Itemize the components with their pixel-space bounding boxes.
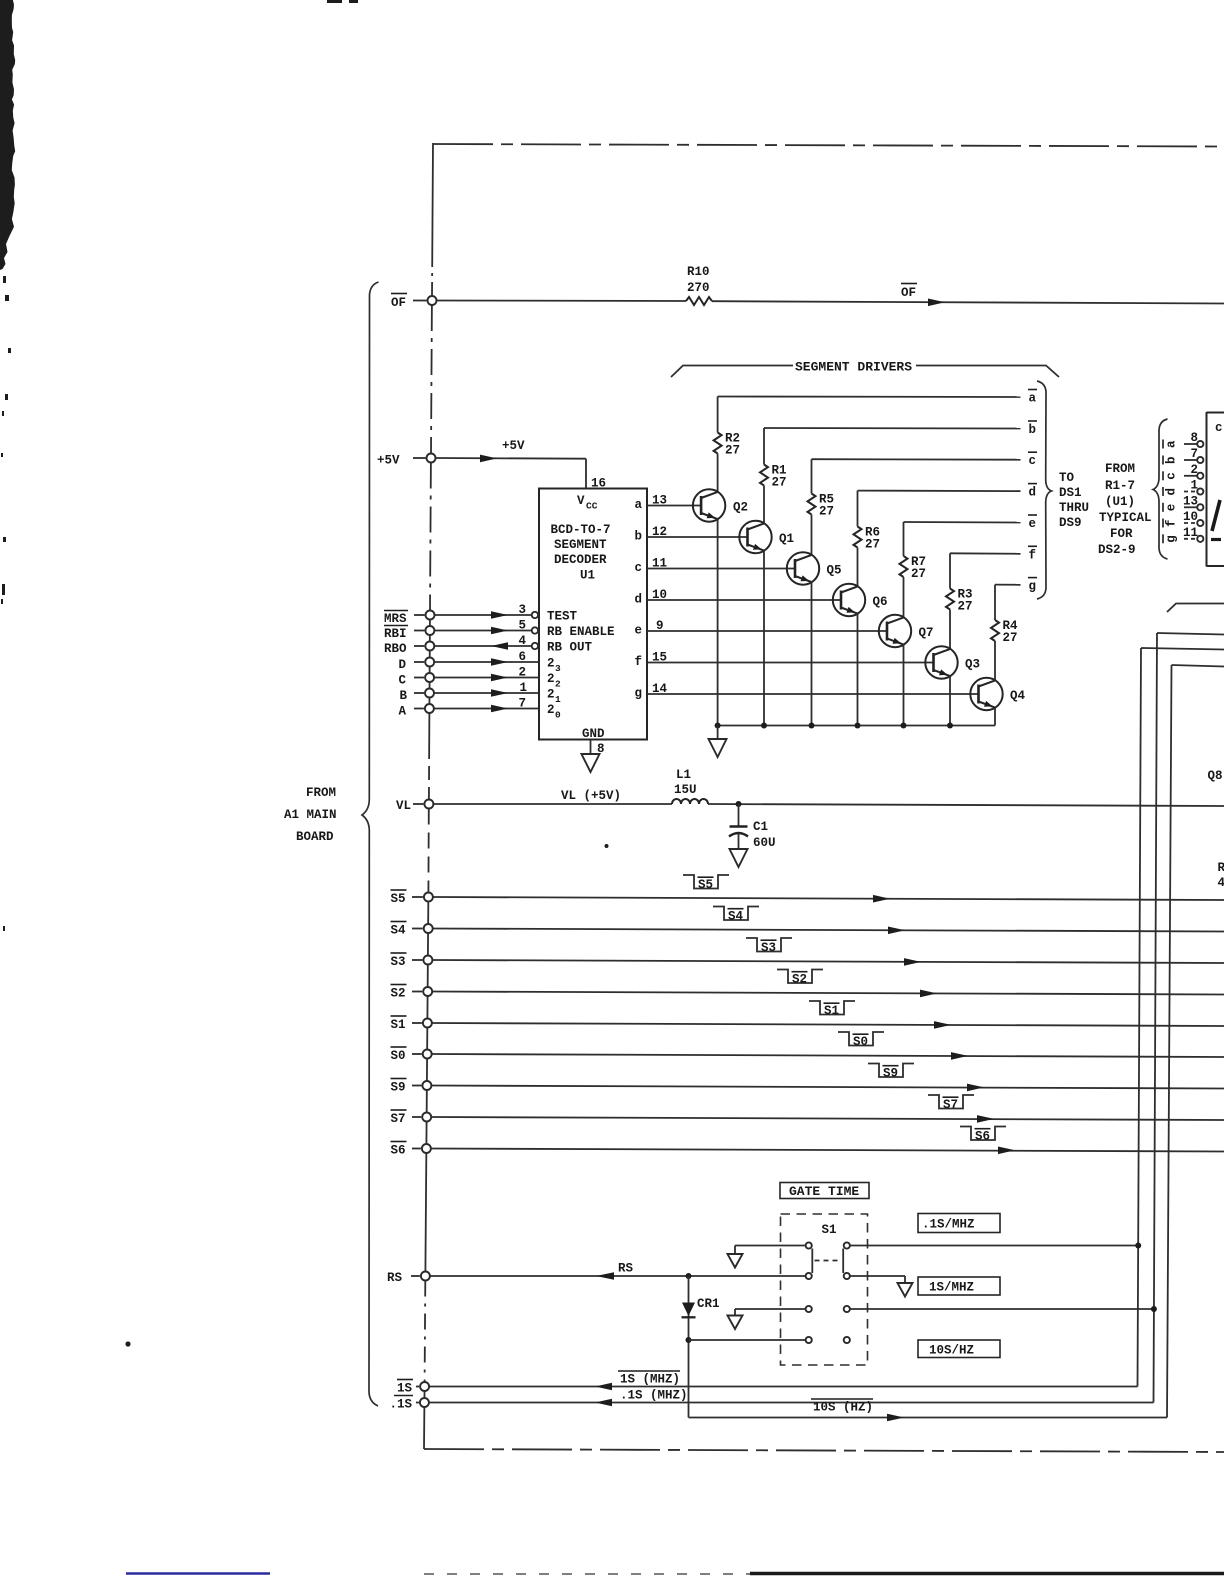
svg-text:Q5: Q5 <box>827 564 842 578</box>
junction dot row1/riser1 <box>1135 1243 1141 1249</box>
wire: .1S (MHZ) line <box>429 1402 1154 1404</box>
svg-text:c: c <box>1165 472 1179 480</box>
svg-text:a: a <box>1165 440 1179 448</box>
svg-text:11: 11 <box>1183 526 1198 540</box>
svg-text:C1: C1 <box>753 820 768 834</box>
svg-text:.1S (MHZ): .1S (MHZ) <box>620 1389 688 1403</box>
resistor R10 <box>686 297 712 305</box>
wire: segment d-bar line <box>858 490 1021 493</box>
resistor R4 27 <box>991 620 999 641</box>
wire: Q7 emitter down <box>903 645 905 726</box>
svg-text:6: 6 <box>518 650 526 664</box>
svg-text:4: 4 <box>518 634 526 648</box>
node 1S <box>397 1380 413 1396</box>
svg-text:1: 1 <box>1190 479 1198 493</box>
svg-text:e: e <box>1029 517 1037 531</box>
svg-text:2: 2 <box>547 657 555 671</box>
svg-text:1S/MHZ: 1S/MHZ <box>929 1281 974 1295</box>
svg-text:0: 0 <box>555 710 561 721</box>
pulse symbol S9 <box>868 1064 914 1081</box>
node S1 <box>391 1016 407 1032</box>
svg-text:OF: OF <box>901 286 916 300</box>
svg-text:S4: S4 <box>728 910 744 924</box>
pulse symbol S7 <box>928 1095 974 1112</box>
label Vcc <box>577 494 598 512</box>
label box 10S/HZ <box>918 1340 1000 1358</box>
svg-text:27: 27 <box>772 476 787 490</box>
DS1 pin 2 / c-bar <box>1163 463 1203 481</box>
DS1 pin 11 / g-bar <box>1163 526 1203 544</box>
svg-text:g: g <box>1165 535 1179 543</box>
transistor Q2 <box>693 489 748 521</box>
svg-text:1S (MHZ): 1S (MHZ) <box>620 1373 680 1387</box>
wire: .1S(MHZ) vertical riser <box>1154 633 1224 1403</box>
resistor R7 27 <box>900 556 908 577</box>
transistor Q1 <box>739 521 794 553</box>
pulse symbol S4 <box>713 907 759 924</box>
U1 output pin c 11 / wire to Q5 base <box>647 568 795 570</box>
svg-text:(U1): (U1) <box>1105 495 1135 509</box>
svg-text:S0: S0 <box>391 1049 406 1063</box>
svg-text:D: D <box>399 658 407 672</box>
svg-text:g: g <box>635 687 643 701</box>
ground (S1 row1) <box>728 1254 743 1268</box>
svg-text:+5V: +5V <box>502 439 525 453</box>
pulse symbol S6 <box>960 1127 1006 1144</box>
wire: VL line <box>433 804 1224 806</box>
switch S1 contact circles <box>806 1242 850 1343</box>
svg-text:A1 MAIN: A1 MAIN <box>284 808 337 822</box>
svg-text:Q4: Q4 <box>1010 689 1026 703</box>
svg-text:S0: S0 <box>853 1035 868 1049</box>
svg-text:27: 27 <box>865 538 880 552</box>
svg-text:DS2-9: DS2-9 <box>1098 543 1136 557</box>
svg-text:GATE TIME: GATE TIME <box>789 1184 859 1199</box>
transistor Q7 <box>879 615 934 647</box>
wire: Q3 emitter down <box>949 676 951 725</box>
svg-text:Q1: Q1 <box>779 532 794 546</box>
svg-text:27: 27 <box>725 444 740 458</box>
wire: CR1 vertical to 10S corner <box>688 1276 690 1418</box>
svg-text:S4: S4 <box>391 924 407 938</box>
svg-text:1: 1 <box>519 681 527 695</box>
ground (S1 row2) <box>898 1283 913 1297</box>
svg-text:FROM: FROM <box>1105 462 1135 476</box>
svg-text:11: 11 <box>652 557 667 571</box>
label TO DS1 THRU DS9 <box>1059 471 1089 530</box>
wire S5 line <box>433 897 1224 900</box>
svg-text:TEST: TEST <box>547 610 578 624</box>
capacitor C1 60U <box>729 804 776 850</box>
IC U1 BCD-to-7 segment decoder <box>539 489 647 740</box>
switch S1 row 4 wire <box>689 1339 806 1341</box>
svg-text:Q7: Q7 <box>919 626 934 640</box>
node S4 <box>391 922 407 938</box>
label box GATE TIME <box>780 1183 869 1200</box>
svg-text:1: 1 <box>555 694 561 705</box>
node OF (left) <box>391 294 407 311</box>
svg-text:C: C <box>399 674 407 688</box>
svg-text:SEGMENT DRIVERS: SEGMENT DRIVERS <box>795 360 912 375</box>
svg-text:60U: 60U <box>753 836 776 850</box>
wire: segment g-bar line <box>995 584 1021 586</box>
svg-text:b: b <box>635 530 643 544</box>
wire: Q1 emitter down <box>763 551 765 726</box>
svg-text:S2: S2 <box>792 973 807 987</box>
node S0 <box>391 1047 407 1063</box>
node .1S <box>390 1396 414 1412</box>
label 10S (HZ) <box>811 1399 873 1415</box>
svg-text:5: 5 <box>518 619 526 633</box>
dash-dot board border top <box>433 144 1224 147</box>
svg-text:U1: U1 <box>580 569 595 583</box>
svg-text:10S/HZ: 10S/HZ <box>929 1344 974 1358</box>
DS1 pin 10 / f-bar <box>1163 510 1203 528</box>
label FROM R1-7 (U1) TYPICAL FOR DS2-9 <box>1098 462 1152 557</box>
svg-text:S1: S1 <box>822 1223 837 1237</box>
svg-text:7: 7 <box>1190 447 1198 461</box>
svg-text:VL (+5V): VL (+5V) <box>561 789 621 803</box>
resistor R2 27 <box>714 433 722 454</box>
svg-text:RS: RS <box>387 1271 403 1285</box>
svg-text:SEGMENT: SEGMENT <box>554 538 607 552</box>
wire RBI to RB ENABLE pin 5 <box>435 630 532 632</box>
node S7 <box>391 1110 407 1126</box>
label OF (right) with arrow <box>901 284 917 301</box>
wire S2 line <box>432 992 1224 995</box>
svg-text:FOR: FOR <box>1110 527 1133 541</box>
svg-text:a: a <box>1029 392 1037 406</box>
node S9 <box>391 1079 407 1095</box>
svg-text:3: 3 <box>518 603 526 617</box>
wire B to pin 1 <box>435 692 540 694</box>
wire S9 line <box>431 1086 1224 1089</box>
svg-text:a: a <box>635 498 643 512</box>
wire: common emitter rail <box>718 725 995 727</box>
svg-text:MRS: MRS <box>384 612 407 626</box>
brace: FROM A1 MAIN BOARD <box>362 282 379 1406</box>
wire: Q6 emitter down <box>857 614 859 726</box>
svg-text:10: 10 <box>652 588 667 602</box>
switch S1 row 3 wires <box>735 1309 1154 1316</box>
brace: SEGMENT DRIVERS title <box>671 366 1059 378</box>
U1 output pin a 13 / wire to Q2 base <box>647 505 701 507</box>
svg-text:DECODER: DECODER <box>554 553 607 567</box>
label box 1S/MHZ <box>918 1277 1000 1295</box>
node S5 <box>391 890 407 906</box>
svg-text:Q2: Q2 <box>733 501 748 515</box>
transistor Q6 <box>833 584 888 616</box>
svg-text:RB ENABLE: RB ENABLE <box>547 625 615 639</box>
svg-text:S5: S5 <box>698 878 713 892</box>
ground (C1) <box>730 849 748 867</box>
inductor L1 15U <box>672 799 708 804</box>
scan artifact: top edge marks <box>327 0 342 3</box>
svg-text:2: 2 <box>1190 463 1198 477</box>
wire: 1S (MHZ) line <box>429 1386 1137 1388</box>
svg-text:+5V: +5V <box>377 454 400 468</box>
svg-text:Q3: Q3 <box>965 658 980 672</box>
node S3 <box>391 953 407 969</box>
svg-text:.1S/MHZ: .1S/MHZ <box>922 1218 975 1232</box>
junction dots on emitter rail <box>715 723 721 729</box>
wire S0 line <box>432 1054 1224 1057</box>
pulse symbol S5 <box>683 875 729 892</box>
svg-text:12: 12 <box>652 525 667 539</box>
pulse symbol S3 <box>746 938 792 955</box>
scan artifact: bottom page edge line <box>424 1573 750 1575</box>
junction dot RS/CR1 <box>686 1273 692 1279</box>
svg-text:8: 8 <box>1190 431 1198 445</box>
pulse symbol S1 <box>809 1001 855 1018</box>
U1 output pin d 10 / wire to Q6 base <box>647 599 841 601</box>
svg-text:R1-7: R1-7 <box>1105 479 1135 493</box>
svg-text:2: 2 <box>547 672 555 686</box>
svg-text:Q8: Q8 <box>1208 769 1223 783</box>
svg-text:VL: VL <box>396 799 411 813</box>
svg-text:13: 13 <box>652 494 667 508</box>
resistor R1 27 <box>760 465 768 486</box>
scan artifact: blue pen line bottom left <box>126 1572 270 1575</box>
DS1 pin 1 / d-bar <box>1163 479 1203 497</box>
wire S7 line <box>431 1117 1224 1120</box>
svg-text:2: 2 <box>547 703 555 717</box>
svg-text:GND: GND <box>582 727 605 741</box>
wire: segment c-bar line <box>812 458 1021 461</box>
svg-text:RB OUT: RB OUT <box>547 641 593 655</box>
wire RBO from RB OUT pin 4 <box>435 645 532 647</box>
svg-text:27: 27 <box>1003 631 1018 645</box>
wire: segment e-bar line <box>904 521 1021 524</box>
svg-text:2: 2 <box>547 688 555 702</box>
svg-text:DS1: DS1 <box>1059 486 1082 500</box>
wire: A1 bus vertical (left border) <box>424 143 433 1449</box>
svg-text:RS: RS <box>618 1262 634 1276</box>
svg-text:S3: S3 <box>761 941 776 955</box>
brace: typical segment inputs DS1 <box>1153 419 1168 559</box>
wire C to pin 2 <box>435 677 540 679</box>
node RBI <box>384 626 408 642</box>
wire: 10S(HZ) vertical riser <box>1167 665 1224 1418</box>
svg-text:RBI: RBI <box>384 627 407 641</box>
svg-text:f: f <box>635 655 643 669</box>
svg-text:A: A <box>399 705 407 719</box>
svg-text:S9: S9 <box>391 1081 406 1095</box>
label: FROM A1 MAIN BOARD <box>284 786 337 844</box>
brace: digit drivers section (cut off) <box>1167 604 1224 613</box>
svg-text:.1S: .1S <box>390 1398 413 1412</box>
pulse symbol S0 <box>838 1032 884 1049</box>
svg-text:c: c <box>1215 421 1223 435</box>
svg-text:10S (HZ): 10S (HZ) <box>813 1401 873 1415</box>
wire MRS to TEST pin 3 <box>435 614 532 616</box>
wire D to pin 6 <box>435 661 540 663</box>
svg-text:g: g <box>1029 580 1037 594</box>
DS1 pin 8 / a-bar <box>1163 431 1203 449</box>
svg-text:9: 9 <box>656 619 664 633</box>
svg-text:S6: S6 <box>391 1144 406 1158</box>
svg-text:THRU: THRU <box>1059 501 1089 515</box>
switch S1 poles and coupling <box>812 1249 843 1274</box>
node MRS <box>384 611 408 627</box>
ground (emitter rail) <box>717 726 719 740</box>
brace: to DS1 (right of segment outputs) <box>1037 381 1052 599</box>
wire: segment f-bar line <box>950 552 1021 555</box>
scan artifact: left binding strip <box>0 0 15 931</box>
svg-text:4: 4 <box>1218 876 1224 890</box>
node S6 <box>391 1142 407 1158</box>
svg-text:CC: CC <box>586 501 598 512</box>
wire: segment a-bar line <box>718 396 1021 399</box>
U1 output pin f 15 / wire to Q3 base <box>647 662 934 664</box>
svg-text:S6: S6 <box>975 1130 990 1144</box>
wire: +5V line <box>436 458 587 489</box>
svg-text:f: f <box>1029 548 1037 562</box>
svg-text:CR1: CR1 <box>697 1297 720 1311</box>
wire S3 line <box>432 960 1224 963</box>
diode CR1 <box>682 1297 720 1317</box>
svg-text:Q6: Q6 <box>873 595 888 609</box>
wire A to pin 7 <box>435 708 540 710</box>
transistor Q4 <box>970 678 1025 710</box>
scan artifact: stray ink dot near U1 <box>605 844 609 848</box>
label U1 title <box>551 523 611 583</box>
svg-text:OF: OF <box>391 296 406 310</box>
transistor Q5 <box>787 552 842 584</box>
bus connection circles MRS..A <box>414 614 425 616</box>
svg-text:V: V <box>577 494 585 508</box>
svg-text:c: c <box>635 561 643 575</box>
svg-text:S5: S5 <box>391 892 406 906</box>
svg-text:c: c <box>1029 454 1037 468</box>
U1 output pin g 14 / wire to Q4 base <box>647 693 979 695</box>
wire: 1S(MHZ) vertical riser <box>1138 648 1224 1387</box>
svg-text:16: 16 <box>591 477 606 491</box>
svg-text:R10: R10 <box>687 265 710 279</box>
svg-text:27: 27 <box>958 600 973 614</box>
svg-text:1S: 1S <box>397 1382 413 1396</box>
svg-text:27: 27 <box>819 505 834 519</box>
svg-text:e: e <box>1165 504 1179 512</box>
wire S4 line <box>433 929 1224 932</box>
dash-dot board border bottom <box>424 1449 1224 1452</box>
svg-text:13: 13 <box>1183 494 1198 508</box>
wire: Q5 emitter down <box>811 582 813 725</box>
svg-text:b: b <box>1029 423 1037 437</box>
svg-text:DS9: DS9 <box>1059 516 1082 530</box>
svg-text:15U: 15U <box>674 783 697 797</box>
svg-text:S1: S1 <box>824 1004 839 1018</box>
scan artifact: ink speck left margin <box>125 1341 130 1346</box>
switch S1 dashed enclosure <box>781 1214 868 1365</box>
wire: Q4 emitter down <box>994 708 996 726</box>
svg-text:14: 14 <box>652 682 668 696</box>
resistor R3 27 <box>946 589 954 610</box>
svg-text:S1: S1 <box>391 1018 406 1032</box>
labels: segment outputs a-bar..g-bar <box>1028 390 1037 594</box>
label R10 270 <box>687 265 710 295</box>
ground (U1 pin 8) <box>582 754 600 772</box>
svg-text:R: R <box>1218 861 1224 875</box>
ground (S1 row3) <box>728 1316 743 1330</box>
wire: OF line <box>437 301 1224 304</box>
wire S1 line <box>432 1023 1224 1026</box>
svg-text:S7: S7 <box>391 1112 406 1126</box>
svg-text:S7: S7 <box>943 1098 958 1112</box>
svg-text:S3: S3 <box>391 955 406 969</box>
svg-text:B: B <box>400 689 408 703</box>
svg-text:3: 3 <box>555 663 561 674</box>
svg-text:270: 270 <box>687 281 710 295</box>
svg-text:10: 10 <box>1183 510 1198 524</box>
DS1 pin 13 / e-bar <box>1163 494 1203 512</box>
junction dot CR1/row4 <box>686 1337 692 1343</box>
transistor Q3 <box>925 646 980 678</box>
svg-text:2: 2 <box>518 666 526 680</box>
svg-text:f: f <box>1165 519 1179 527</box>
switch S1 row 1 wires <box>735 1246 1138 1255</box>
svg-text:7: 7 <box>518 697 526 711</box>
pulse symbol S2 <box>777 970 823 987</box>
U1 output pin b 12 / wire to Q1 base <box>647 536 748 538</box>
svg-text:S9: S9 <box>883 1067 898 1081</box>
wire: Q2 emitter down <box>717 519 719 725</box>
DS1 pin 7 / b-bar <box>1163 447 1203 465</box>
resistor R6 27 <box>854 527 862 548</box>
wire: 10S (HZ) line <box>689 1417 1168 1419</box>
svg-text:b: b <box>1165 456 1179 464</box>
svg-text:15: 15 <box>652 651 667 665</box>
svg-text:L1: L1 <box>676 768 691 782</box>
svg-text:TYPICAL: TYPICAL <box>1099 511 1152 525</box>
svg-text:TO: TO <box>1059 471 1075 485</box>
node S2 <box>391 985 407 1001</box>
svg-text:BCD-TO-7: BCD-TO-7 <box>551 523 611 537</box>
svg-text:d: d <box>1029 486 1037 500</box>
svg-text:27: 27 <box>911 567 926 581</box>
label 1S (MHZ) <box>618 1371 680 1387</box>
svg-text:BOARD: BOARD <box>296 830 334 844</box>
svg-text:FROM: FROM <box>306 786 336 800</box>
U1 GND pin 8 <box>582 727 605 756</box>
U1 output pin e 9 / wire to Q7 base <box>647 630 887 632</box>
display DS1 (cut off at page edge) <box>1207 412 1224 567</box>
wire: segment b-bar line <box>764 427 1021 430</box>
svg-text:RBO: RBO <box>384 642 407 656</box>
label box .1S/MHZ <box>918 1214 1000 1233</box>
junction dot VL/C1 <box>736 801 742 807</box>
svg-text:e: e <box>635 624 643 638</box>
svg-text:d: d <box>1165 488 1179 496</box>
svg-text:d: d <box>635 593 643 607</box>
svg-text:2: 2 <box>555 679 561 690</box>
resistor R5 27 <box>808 494 816 515</box>
svg-text:S2: S2 <box>391 987 406 1001</box>
wire: RS line <box>430 1275 806 1277</box>
junction dot row3/riser2 <box>1151 1306 1157 1312</box>
switch S1 row 2 wire right with ground <box>850 1276 905 1283</box>
wire S6 line <box>431 1149 1224 1152</box>
